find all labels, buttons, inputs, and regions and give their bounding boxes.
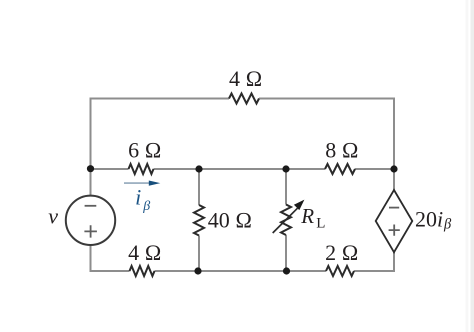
svg-text:4 Ω: 4 Ω	[128, 240, 161, 265]
voltage source v circle	[66, 196, 115, 245]
resistor 2ohm bottom zigzag	[326, 266, 354, 276]
current arrow i-beta	[124, 181, 160, 186]
wire bottom node F to 2ohm	[287, 270, 327, 272]
svg-text:4 Ω: 4 Ω	[229, 66, 262, 91]
wire RL branch bottom	[285, 235, 287, 271]
resistor 40ohm vertical zigzag	[194, 205, 204, 235]
resistor 4ohm bottom zigzag	[130, 266, 155, 276]
resistor RL vertical zigzag	[281, 205, 291, 235]
wire middle node B to node C	[199, 168, 286, 170]
wire middle from source to 6ohm	[91, 168, 129, 170]
resistor 4ohm top zigzag	[229, 94, 259, 104]
svg-text:20i: 20i	[415, 207, 443, 232]
node F RL bottom junction dot	[283, 267, 290, 274]
wire top-left segment	[91, 99, 230, 170]
wire left rail lower	[90, 169, 92, 196]
node A middle-left junction dot	[87, 165, 94, 172]
wire 40ohm branch top	[198, 169, 200, 205]
svg-text:β: β	[443, 216, 452, 232]
voltage source plus sign	[84, 225, 97, 237]
node E 40ohm bottom junction dot	[194, 267, 201, 274]
svg-text:β: β	[142, 199, 150, 214]
wire source bottom to bottom rail	[91, 245, 130, 271]
dependent source plus sign	[389, 225, 400, 236]
svg-text:6 Ω: 6 Ω	[128, 138, 161, 163]
node C RL top junction dot	[282, 165, 289, 172]
voltage source minus sign	[85, 205, 97, 207]
wire right rail diamond top	[393, 169, 395, 190]
wire bottom 4ohm to node E	[155, 270, 199, 272]
wire middle 8ohm to node D	[355, 168, 394, 170]
node D middle-right junction dot	[390, 165, 397, 172]
dependent source minus sign	[389, 207, 399, 209]
edge shading right	[466, 0, 469, 332]
svg-text:v: v	[48, 204, 58, 229]
svg-text:i: i	[135, 185, 141, 210]
wire RL branch top	[285, 169, 287, 205]
wire bottom node E to node F	[198, 270, 287, 272]
resistor 8ohm zigzag	[325, 164, 355, 174]
RL wiper arrow	[273, 200, 305, 233]
svg-text:R: R	[300, 204, 314, 228]
svg-text:L: L	[316, 215, 325, 231]
resistor 6ohm zigzag	[129, 164, 154, 174]
svg-text:40 Ω: 40 Ω	[208, 208, 252, 233]
wire bottom 2ohm to right rail	[354, 252, 394, 271]
svg-text:8 Ω: 8 Ω	[325, 138, 358, 163]
dependent source 20ib diamond	[376, 190, 413, 252]
node B 40ohm top junction dot	[195, 165, 202, 172]
svg-text:2 Ω: 2 Ω	[325, 240, 358, 265]
wire middle node C to 8ohm	[286, 168, 325, 170]
wire 40ohm branch bottom	[198, 236, 200, 272]
wire middle 6ohm to node B	[154, 168, 200, 170]
wire top-right segment	[259, 99, 394, 170]
